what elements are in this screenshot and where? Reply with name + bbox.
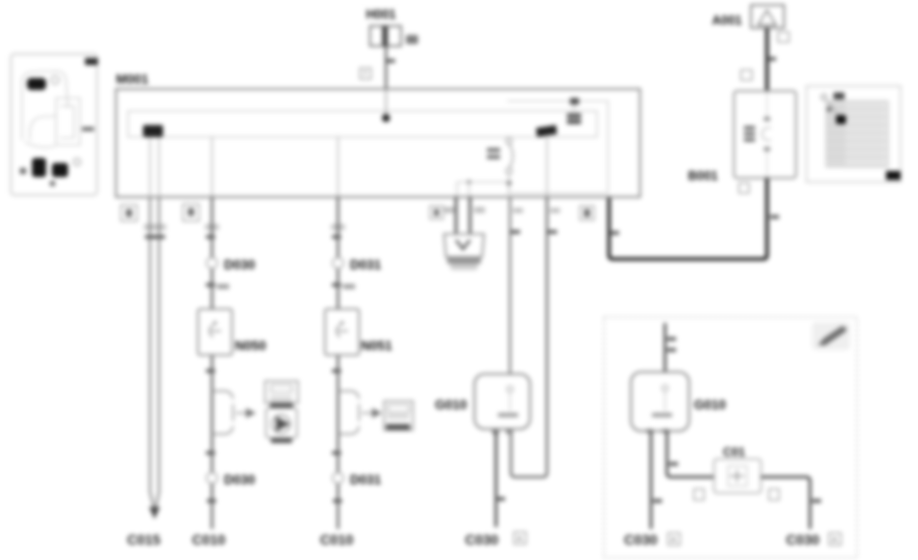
- location blob 3: [52, 163, 68, 177]
- horn H001 body: [370, 26, 401, 46]
- ground wire G010: [495, 432, 498, 527]
- wire tick: [669, 462, 678, 466]
- fuse marks right: [567, 114, 581, 119]
- svg-text:C010: C010: [192, 532, 226, 548]
- wire tick: [496, 497, 505, 501]
- inner band: [128, 111, 597, 137]
- wire tick: [548, 230, 557, 234]
- connector C015: [127, 532, 161, 548]
- pin square B001 top: [741, 70, 752, 80]
- svg-text:N051: N051: [361, 338, 392, 353]
- component location inset box: [11, 54, 98, 195]
- wire tick: [387, 59, 395, 63]
- internal wire 2: [211, 137, 213, 197]
- wire tick: [768, 57, 776, 61]
- antenna wire pair to C015: [150, 197, 159, 512]
- location callout circle: [51, 76, 59, 84]
- junction N050: [198, 309, 232, 355]
- car dashboard outline: [22, 71, 80, 147]
- legend wire right elbow: [667, 431, 714, 477]
- branch arrow wire2: [212, 391, 248, 434]
- pin square 30: [778, 32, 789, 42]
- svg-text:C030: C030: [786, 532, 820, 548]
- pin square F: [430, 206, 443, 219]
- internal wire 3: [337, 137, 339, 197]
- svg-text:D030: D030: [224, 472, 255, 487]
- ignition switch B001: [734, 91, 796, 178]
- legend wire top: [664, 323, 667, 372]
- legend black bar: [886, 171, 901, 180]
- wire tick: [206, 451, 215, 455]
- svg-text:G010: G010: [694, 397, 726, 412]
- location blob 1: [27, 78, 46, 90]
- wire to G010 top: [509, 197, 511, 374]
- generator G010: [475, 374, 531, 434]
- svg-text:A001: A001: [712, 14, 742, 28]
- wire tick pair: [145, 235, 165, 239]
- generator G010 copy: [631, 372, 689, 433]
- wire colour codes left: [144, 224, 345, 230]
- junction N051: [325, 309, 359, 355]
- wire tick: [770, 215, 779, 219]
- branch arrow wire3: [338, 391, 374, 434]
- location tiny marks: [20, 127, 94, 186]
- wire tick: [332, 283, 341, 287]
- heater element component: [384, 401, 413, 430]
- nested rect: [507, 101, 608, 193]
- svg-text:D031: D031: [350, 257, 381, 272]
- pin square 2: [121, 205, 137, 221]
- connector C030: [465, 532, 526, 548]
- connector C010: [192, 532, 226, 548]
- connector D031 upper: [333, 257, 382, 272]
- wire tick: [206, 369, 215, 373]
- wire tick: [511, 230, 520, 234]
- svg-text:C01: C01: [723, 445, 745, 459]
- legend wire right to ground: [761, 477, 810, 529]
- pin square right: [769, 489, 779, 500]
- svg-text:7: 7: [363, 69, 367, 78]
- fuse F: [487, 137, 513, 193]
- wire tick: [332, 235, 341, 239]
- location callout circle 2: [74, 159, 81, 166]
- internal joining line: [457, 181, 509, 183]
- svg-text:M001: M001: [116, 72, 149, 87]
- wire tick: [653, 499, 662, 503]
- svg-text:C015: C015: [127, 532, 161, 548]
- wire inside from H001: [385, 89, 387, 115]
- battery A001 body: [751, 5, 784, 28]
- svg-text:C010: C010: [320, 532, 354, 548]
- pin square left: [694, 489, 704, 500]
- wire tick: [333, 499, 342, 503]
- wire tick: [667, 337, 676, 341]
- connector D031 lower: [333, 472, 382, 487]
- wire A001 to B001: [765, 28, 769, 91]
- svg-text:G010: G010: [435, 397, 467, 412]
- svg-text:A: A: [671, 535, 676, 544]
- svg-text:B001: B001: [688, 169, 718, 183]
- pencil icon: [812, 322, 850, 350]
- internal wire right blob down: [546, 137, 548, 197]
- svg-text:D030: D030: [224, 257, 255, 272]
- wire tick: [667, 348, 676, 352]
- fuse box M001 body: [116, 89, 640, 197]
- loop arrow tip: [149, 507, 160, 519]
- location blob 2: [32, 158, 46, 177]
- wire tick: [207, 499, 216, 503]
- pin square right: [580, 206, 594, 220]
- connector C010 b: [320, 532, 354, 548]
- wire H001 to M001: [385, 46, 387, 89]
- wire G010 right loop: [511, 197, 547, 477]
- connector C030 legend right: [786, 532, 841, 548]
- connector C030 legend left: [624, 532, 680, 548]
- legend tiny marks: [821, 94, 827, 100]
- cigar lighter component: [265, 381, 298, 443]
- wire tick: [812, 499, 821, 503]
- wire B001 to M001: [609, 178, 767, 259]
- svg-text:N050: N050: [235, 338, 266, 353]
- svg-text:C030: C030: [624, 532, 658, 548]
- legend ground wire left: [650, 431, 653, 529]
- pin square 8: [183, 204, 199, 221]
- svg-text:A: A: [517, 534, 522, 543]
- connector blob left: [143, 125, 163, 137]
- fusebox location dot: [836, 115, 846, 124]
- internal wire pair from blob left: [149, 137, 151, 197]
- svg-text:D031: D031: [350, 472, 381, 487]
- connector blob right: [536, 125, 557, 137]
- wire 2: [211, 197, 213, 529]
- wire tick: [332, 369, 341, 373]
- svg-text:C030: C030: [465, 532, 499, 548]
- svg-text:A: A: [832, 535, 837, 544]
- pin square B001 bottom: [739, 183, 749, 193]
- detail legend box: [604, 317, 857, 558]
- pin square 7: [360, 68, 371, 79]
- wire tick: [206, 283, 215, 287]
- pin square H001: [406, 35, 418, 44]
- connector D030 lower: [207, 472, 256, 487]
- connector D030 upper: [207, 257, 256, 272]
- open connector cup: [444, 234, 484, 270]
- wire tick: [206, 235, 215, 239]
- wire colour codes: [444, 207, 560, 213]
- fusebox legend inset: [807, 86, 901, 182]
- terminal dot: [382, 114, 390, 122]
- wire pair to open connector: [455, 197, 457, 234]
- wire 3: [337, 197, 339, 529]
- wire tick: [332, 451, 341, 455]
- svg-text:H001: H001: [366, 8, 396, 22]
- wire tick: [610, 231, 619, 235]
- terminal block C01: [714, 459, 761, 493]
